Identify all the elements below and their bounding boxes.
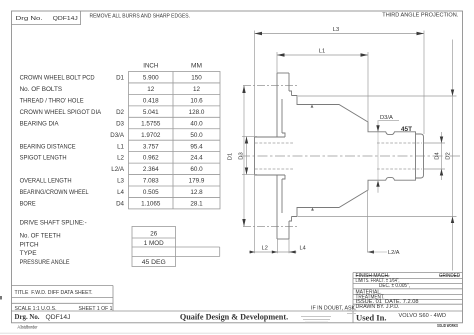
faint page edge line (0, 332, 474, 334)
svg-text:D1: D1 (228, 153, 234, 160)
svg-text:L3: L3 (333, 27, 339, 33)
svg-text:D1: D1 (116, 75, 124, 82)
svg-text:Quaife Design & Development.: Quaife Design & Development. (180, 312, 288, 321)
svg-text:CROWN WHEEL SPIGOT DIA: CROWN WHEEL SPIGOT DIA (20, 109, 102, 116)
svg-text:179.9: 179.9 (189, 178, 205, 185)
bore hidden lines (255, 143, 422, 169)
main centre line (axis) (240, 155, 462, 157)
svg-text:PITCH: PITCH (20, 242, 39, 249)
svg-text:L3: L3 (117, 178, 124, 185)
mm values (189, 75, 205, 208)
svg-text:SHEET 1 OF 1: SHEET 1 OF 1 (79, 306, 113, 312)
D3 extension horizontals (242, 136, 257, 138)
dimension L2/A (368, 251, 388, 253)
small tick on web bottom (311, 208, 314, 211)
svg-text:Drg No.: Drg No. (16, 16, 44, 22)
svg-text:Drg. No.: Drg. No. (15, 313, 40, 321)
spigot bottom profile (292, 177, 416, 216)
svg-text:45 DEG: 45 DEG (142, 259, 166, 266)
right info block texts (356, 273, 461, 310)
svg-text:1.1065: 1.1065 (141, 201, 161, 208)
dimension D1 (243, 86, 245, 227)
right info block (352, 273, 354, 323)
svg-text:L2/A: L2/A (388, 250, 400, 256)
svg-text:12.8: 12.8 (190, 189, 203, 196)
svg-text:150: 150 (191, 75, 202, 82)
left edge mark (0, 296, 2, 300)
dimension L3 (255, 33, 425, 35)
svg-text:12: 12 (193, 86, 201, 93)
svg-text:5.041: 5.041 (143, 109, 159, 116)
svg-text:L2: L2 (117, 155, 124, 162)
drg no box (top left) (12, 11, 81, 25)
svg-text:QDF14J: QDF14J (46, 314, 71, 321)
svg-text:D3: D3 (116, 120, 124, 127)
svg-text:0.505: 0.505 (143, 189, 159, 196)
svg-text:L2/A: L2/A (111, 166, 125, 173)
notch top (282, 133, 285, 137)
svg-text:7.083: 7.083 (143, 178, 159, 185)
bolt PCD centre line lower (243, 226, 298, 228)
dimension D4 (441, 132, 443, 180)
dimensions L2 / L4 (249, 251, 297, 253)
inch values (141, 75, 161, 208)
spline data boxes (132, 227, 220, 267)
svg-text:0.418: 0.418 (143, 98, 159, 105)
signature scribble (301, 311, 357, 323)
flange back face (288, 73, 290, 91)
svg-text:REMOVE ALL BURRS AND SHARP EDG: REMOVE ALL BURRS AND SHARP EDGES. (90, 13, 191, 19)
svg-text:GRINDED: GRINDED (439, 273, 460, 279)
svg-text:SOLID WORKS: SOLID WORKS (437, 323, 458, 328)
svg-text:BEARING DISTANCE: BEARING DISTANCE (20, 143, 77, 150)
designator column (110, 75, 125, 208)
D2 extensions (298, 95, 457, 97)
svg-text:L4: L4 (117, 189, 124, 196)
svg-text:DRAWN BY. J.P.D.: DRAWN BY. J.P.D. (356, 304, 400, 310)
svg-text:L1: L1 (319, 49, 325, 55)
flange OD top/bottom (277, 72, 289, 74)
dimension L1 (277, 54, 368, 56)
svg-text:D4: D4 (116, 201, 124, 208)
bolt PCD centre line upper (243, 85, 298, 87)
svg-text:DEC. ± 0.005",: DEC. ± 0.005", (379, 283, 410, 289)
row labels (20, 75, 102, 208)
svg-text:D2: D2 (446, 152, 452, 159)
hub bottom edge (255, 174, 286, 176)
svg-text:28.1: 28.1 (190, 201, 203, 208)
svg-text:No. OF TEETH: No. OF TEETH (20, 233, 61, 240)
svg-text:40.0: 40.0 (190, 120, 203, 127)
svg-text:INCH: INCH (143, 64, 158, 70)
svg-text:PRESSURE ANGLE: PRESSURE ANGLE (20, 259, 71, 266)
svg-text:95.4: 95.4 (190, 143, 203, 150)
svg-text:D3: D3 (238, 152, 244, 159)
svg-text:Used In.: Used In. (356, 313, 387, 323)
svg-text:D4: D4 (435, 152, 441, 160)
bottom strip top line (12, 310, 463, 312)
data table grid (129, 72, 221, 209)
small tick on web top (311, 105, 314, 108)
flange inner face line (281, 99, 283, 133)
hub face (254, 137, 256, 175)
svg-text:5.900: 5.900 (143, 75, 159, 82)
spigot top profile (292, 96, 416, 135)
svg-text:QDF14J: QDF14J (53, 16, 78, 22)
hub top edge (255, 136, 286, 138)
svg-text:1.9702: 1.9702 (141, 132, 161, 139)
D4 extensions (424, 142, 445, 144)
svg-text:128.0: 128.0 (189, 109, 205, 116)
svg-text:50.0: 50.0 (190, 132, 203, 139)
svg-text:45T: 45T (401, 126, 412, 133)
svg-text:1.5755: 1.5755 (141, 120, 161, 127)
notch bottom (282, 175, 285, 179)
svg-text:THREAD / THRO' HOLE: THREAD / THRO' HOLE (20, 98, 85, 105)
flange front face (276, 73, 278, 137)
svg-text:No. OF BOLTS: No. OF BOLTS (20, 86, 63, 93)
left block (12, 285, 114, 287)
svg-text:MM: MM (191, 64, 202, 70)
svg-text:10.6: 10.6 (190, 98, 203, 105)
svg-text:A3stdborder: A3stdborder (18, 325, 38, 330)
svg-text:BEARING DIA: BEARING DIA (20, 120, 60, 127)
svg-text:SCALE 1:1 U.O.S.: SCALE 1:1 U.O.S. (15, 306, 57, 312)
svg-text:L4: L4 (300, 245, 306, 251)
svg-text:L2: L2 (262, 245, 268, 251)
svg-text:3.757: 3.757 (143, 143, 159, 150)
svg-text:THIRD ANGLE PROJECTION.: THIRD ANGLE PROJECTION. (382, 13, 458, 19)
svg-text:SPIGOT LENGTH: SPIGOT LENGTH (20, 155, 67, 162)
end cap (416, 134, 424, 178)
svg-text:D2: D2 (116, 109, 124, 116)
svg-text:2.364: 2.364 (143, 166, 159, 173)
svg-text:TYPE: TYPE (20, 250, 38, 257)
svg-text:1 MOD: 1 MOD (144, 240, 165, 247)
svg-text:24.4: 24.4 (190, 155, 203, 162)
svg-text:0.962: 0.962 (143, 155, 159, 162)
svg-text:D3/A: D3/A (110, 132, 125, 139)
svg-text:26: 26 (150, 231, 157, 238)
svg-text:DRIVE SHAFT SPLINE:-: DRIVE SHAFT SPLINE:- (20, 220, 87, 227)
dimension D2 (452, 40, 454, 271)
svg-text:BEARING/CROWN WHEEL: BEARING/CROWN WHEEL (20, 189, 89, 196)
part outline (255, 73, 424, 239)
svg-text:CROWN WHEEL BOLT PCD: CROWN WHEEL BOLT PCD (20, 75, 95, 82)
svg-text:L1: L1 (117, 143, 124, 150)
svg-text:OVERALL LENGTH: OVERALL LENGTH (20, 178, 72, 185)
svg-text:12: 12 (147, 86, 155, 93)
svg-text:VOLVO S60 - 4WD: VOLVO S60 - 4WD (399, 313, 447, 319)
extension lines (242, 31, 457, 254)
svg-text:TITLE F.W.D. DIFF DATA SHEET.: TITLE F.W.D. DIFF DATA SHEET. (15, 290, 93, 296)
svg-text:60.0: 60.0 (190, 166, 203, 173)
dimension D3 (246, 137, 248, 175)
svg-text:BORE: BORE (20, 201, 37, 208)
spline data labels (20, 220, 87, 266)
